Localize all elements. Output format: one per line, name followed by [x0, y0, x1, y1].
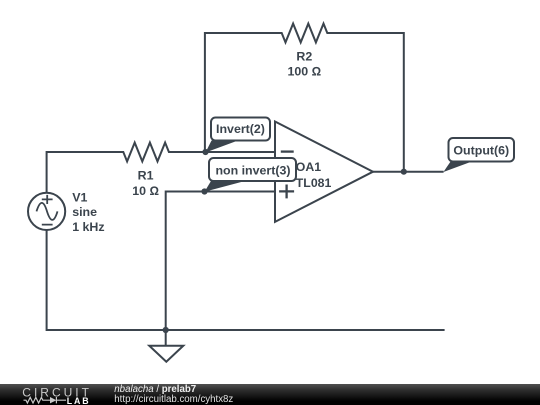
- svg-text:non invert(3): non invert(3): [215, 163, 290, 177]
- wire: output: [373, 171, 444, 173]
- wire: inverting input: [206, 151, 276, 153]
- label V1 value: [72, 190, 104, 234]
- wire: V1 top lead to R1 level: [47, 152, 120, 193]
- ground: [149, 330, 183, 362]
- resistor R1: [120, 143, 172, 162]
- flag Output(6) pin label: [443, 138, 514, 172]
- svg-text:100 Ω: 100 Ω: [287, 64, 321, 78]
- svg-text:TL081: TL081: [296, 176, 332, 190]
- CircuitLab logo: [22, 385, 92, 405]
- svg-text:1 kHz: 1 kHz: [72, 220, 104, 234]
- resistor R2: [278, 24, 331, 43]
- wire: R1 to inverting node: [172, 151, 275, 153]
- op-amp OA1: [275, 122, 373, 222]
- svg-text:R2: R2: [296, 49, 312, 63]
- wire: V1 bottom lead and bottom rail: [47, 230, 445, 330]
- junction: ground node: [163, 327, 169, 333]
- svg-text:Invert(2): Invert(2): [216, 122, 265, 136]
- junction: feedback/output node: [401, 169, 407, 175]
- svg-text:LAB: LAB: [67, 396, 91, 405]
- wire: non-inverting input and vertical to ground rail: [166, 192, 275, 331]
- svg-text:http://circuitlab.com/cyhtx8z: http://circuitlab.com/cyhtx8z: [114, 394, 233, 405]
- svg-text:OA1: OA1: [296, 160, 321, 174]
- svg-text:R1: R1: [138, 169, 154, 183]
- footer bar: [0, 384, 540, 405]
- junction: non-inverting flag node: [201, 188, 207, 194]
- label R2 value: [287, 49, 321, 78]
- voltage source V1: [28, 193, 65, 230]
- svg-text:V1: V1: [72, 190, 87, 204]
- svg-text:Output(6): Output(6): [453, 144, 509, 158]
- flag Invert(2) pin label: [206, 118, 271, 153]
- junction: inverting input node: [202, 149, 208, 155]
- label R1 value: [132, 169, 159, 199]
- flag non invert(3) pin label: [205, 158, 297, 192]
- wire: feedback left vertical and top-left: [205, 33, 278, 152]
- svg-text:10 Ω: 10 Ω: [132, 184, 159, 198]
- svg-text:sine: sine: [72, 205, 97, 219]
- wire: feedback top-right and right vertical: [331, 33, 404, 172]
- label OA1 value: [296, 160, 332, 190]
